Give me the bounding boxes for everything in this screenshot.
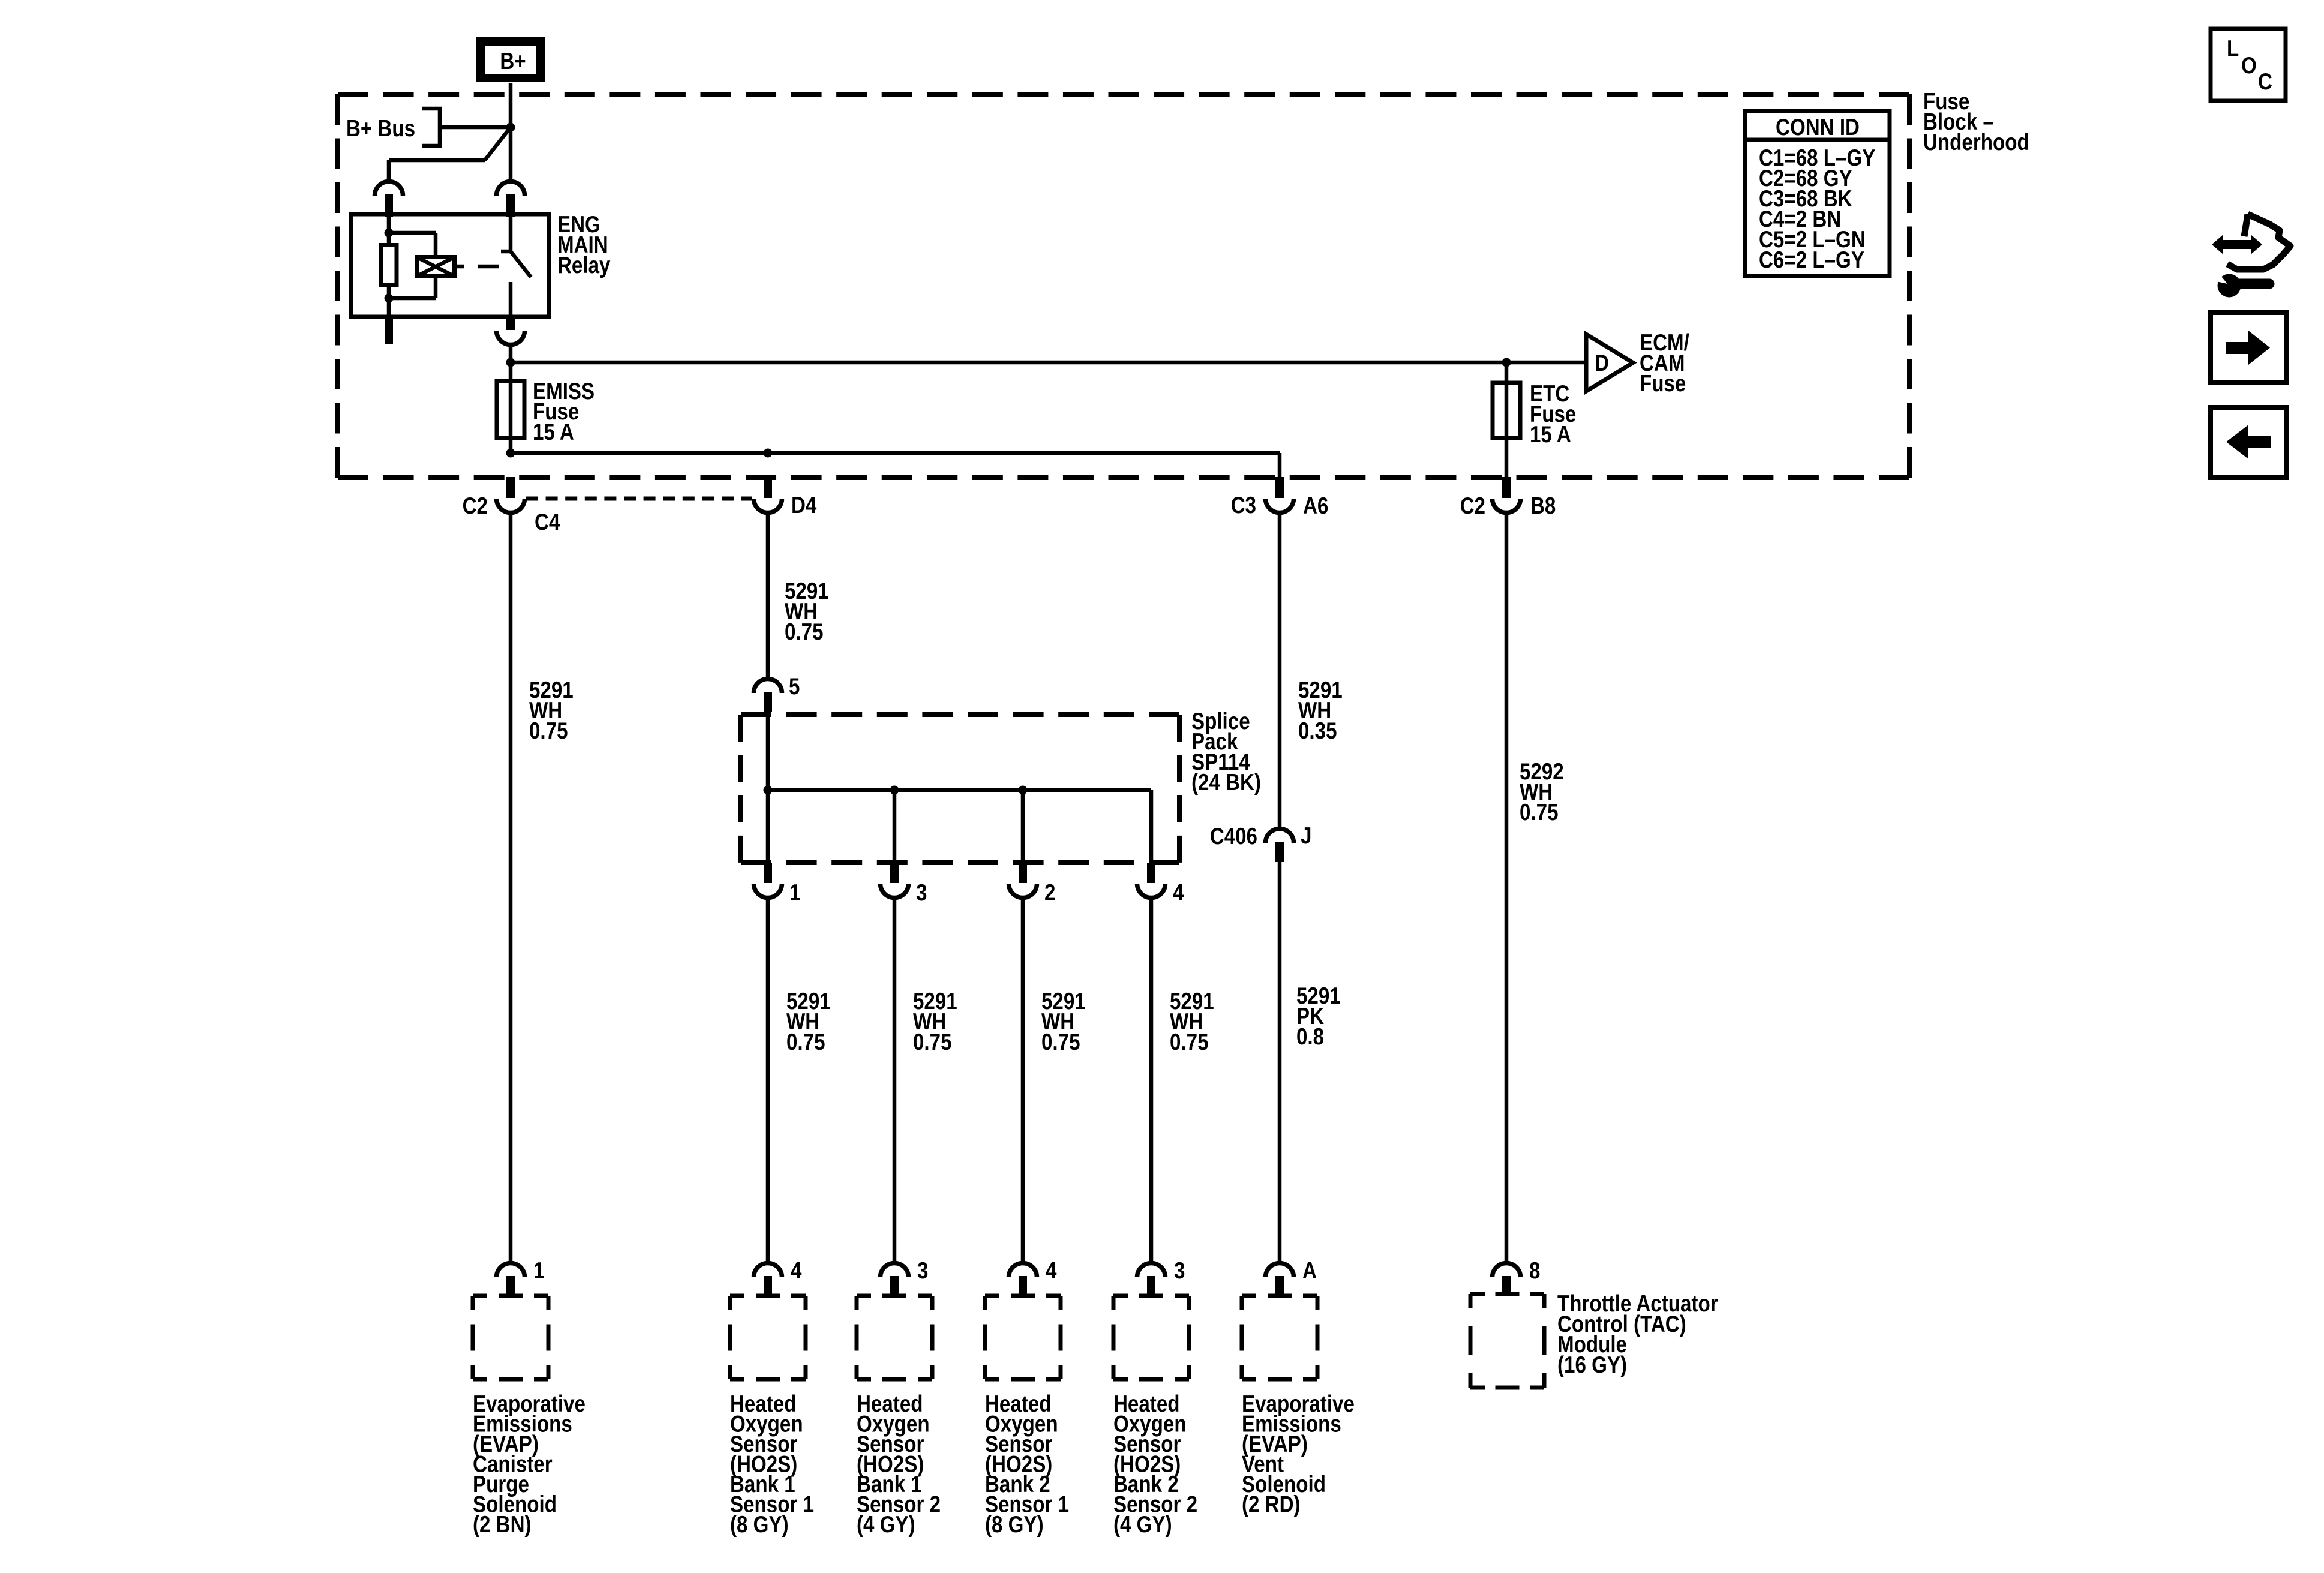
label pin 3 xyxy=(1174,1257,1185,1283)
device box HO2S bank2 sensor1 xyxy=(985,1296,1061,1379)
relay switch lower contact xyxy=(509,282,513,317)
connector C2/C4 (EMISS out) xyxy=(497,477,525,513)
label pin 4 xyxy=(791,1257,801,1283)
connector splice pin 1 xyxy=(754,863,782,898)
connector C406 pin J xyxy=(1266,829,1294,863)
wire 5291 PK to vent solenoid xyxy=(1278,862,1282,1263)
label A6 xyxy=(1303,492,1328,518)
wire 5291 WH to splice xyxy=(766,512,770,679)
fuse EMISS 15A xyxy=(497,381,524,438)
relay ENG MAIN box xyxy=(351,214,549,317)
connector device pin A at x2133 xyxy=(1266,1263,1294,1296)
label wire 5291 WH 0.75 xyxy=(1041,987,1086,1055)
svg-text:D: D xyxy=(1595,349,1609,376)
label HO2S bank1 sensor2 xyxy=(857,1390,941,1537)
label C406 xyxy=(1210,822,1257,849)
svg-text:3: 3 xyxy=(917,1257,928,1283)
splice pack SP114 dashed box xyxy=(741,715,1179,863)
connector D4 (HO2S feed out) xyxy=(754,477,782,513)
wire splice drop 1 xyxy=(766,790,770,863)
label Fuse Block - Underhood xyxy=(1923,88,2029,155)
connector splice pin 2 xyxy=(1009,863,1037,898)
svg-text:C406: C406 xyxy=(1210,822,1257,849)
LOC reference box xyxy=(2211,29,2286,101)
fuse ETC 15A xyxy=(1493,383,1520,438)
wire diagonal from B+ junction xyxy=(485,127,511,160)
label pin 2 xyxy=(1044,879,1055,905)
svg-text:C4: C4 xyxy=(535,508,560,535)
wire B+ junction down to relay switch pin xyxy=(509,127,513,182)
wire 5291 WH from splice pin 3 xyxy=(893,897,897,1263)
svg-text:5: 5 xyxy=(789,673,800,699)
svg-text:8: 8 xyxy=(1529,1257,1540,1283)
connector relay switch pin (top right) xyxy=(497,182,525,218)
svg-text:2: 2 xyxy=(1044,879,1055,905)
wire 5291 WH from splice pin 2 xyxy=(1021,897,1025,1263)
label HO2S bank1 sensor1 xyxy=(730,1390,814,1537)
label ECM/CAM Fuse xyxy=(1640,329,1689,396)
device box HO2S bank2 sensor2 xyxy=(1113,1296,1189,1379)
svg-text:A: A xyxy=(1302,1257,1317,1283)
device box TAC module xyxy=(1470,1294,1544,1388)
label wire 5291 WH 0.75 xyxy=(1170,987,1214,1055)
wire coil top lead xyxy=(389,233,436,255)
wire B+ to junction xyxy=(509,83,513,127)
label Throttle Actuator Control (TAC) Module (16 GY) xyxy=(1557,1290,1718,1377)
wire splice drop 2 xyxy=(1021,790,1025,863)
wire 5292 WH to TAC module xyxy=(1505,512,1509,1263)
relay switch contact xyxy=(501,214,511,251)
connector 5 splice pack xyxy=(754,679,782,712)
node B+ junction xyxy=(506,123,515,132)
svg-text:4: 4 xyxy=(1046,1257,1056,1283)
label wire 5291 PK 0.8 xyxy=(1296,982,1341,1049)
svg-text:3: 3 xyxy=(916,879,927,905)
relay coil output pin stub xyxy=(385,317,393,344)
svg-text:C3: C3 xyxy=(1231,491,1256,518)
svg-text:J: J xyxy=(1301,822,1311,848)
label wire 5291 WH 0.75 xyxy=(913,987,957,1055)
label pin 4 xyxy=(1173,879,1184,905)
ECM/CAM fuse arrow D xyxy=(1586,334,1633,391)
connector device pin 4 at x1280 xyxy=(754,1263,782,1296)
wire elbow down to A6 xyxy=(1278,453,1282,478)
icon arrow left box xyxy=(2211,407,2286,478)
label HO2S bank2 sensor2 xyxy=(1113,1390,1197,1537)
svg-text:CONN ID: CONN ID xyxy=(1776,113,1860,140)
svg-text:A6: A6 xyxy=(1303,492,1328,518)
label pin 3 xyxy=(916,879,927,905)
wire through ETC fuse xyxy=(1505,362,1509,478)
wire 5291 WH from splice pin 4 xyxy=(1149,897,1154,1263)
relay switch blade xyxy=(511,251,531,277)
node D4 branch junction xyxy=(764,449,773,458)
wire horizontal to relay coil side xyxy=(389,158,485,163)
label wire 5291 WH 0.75 (splice feed) xyxy=(785,577,829,644)
svg-text:C: C xyxy=(2258,68,2272,94)
wire splice feed inside xyxy=(766,711,770,790)
label HO2S bank2 sensor1 xyxy=(985,1390,1069,1537)
label pin J xyxy=(1301,822,1311,848)
svg-text:C2: C2 xyxy=(1460,492,1485,518)
B+ battery feed box xyxy=(481,41,541,78)
svg-text:ECM/CAMFuse: ECM/CAMFuse xyxy=(1640,329,1689,396)
connector face C4 dashed line xyxy=(526,497,752,501)
connector C3/A6 (vent feed out) xyxy=(1266,477,1294,513)
wire 5291 WH from splice pin 1 xyxy=(766,897,770,1263)
label EVAP vent solenoid xyxy=(1242,1390,1355,1517)
wire down to relay pin xyxy=(387,160,391,182)
connector splice pin 3 xyxy=(881,863,909,898)
svg-text:D4: D4 xyxy=(791,491,816,518)
icon vehicle with wrench xyxy=(2211,214,2290,298)
label wire 5292 WH 0.75 xyxy=(1520,758,1564,825)
node splice junction 1 xyxy=(764,786,773,795)
label pin A xyxy=(1302,1257,1317,1283)
svg-text:B+: B+ xyxy=(500,47,526,74)
svg-text:1: 1 xyxy=(533,1257,544,1283)
device box EVAP vent solenoid xyxy=(1242,1296,1317,1379)
wire splice drop 3 xyxy=(893,790,897,863)
node relay output junction xyxy=(506,358,515,367)
node coil top junction xyxy=(385,229,394,238)
resistor relay suppression xyxy=(381,245,397,285)
wire bus below EMISS fuse xyxy=(511,451,1280,455)
node splice junction 3 xyxy=(1019,786,1028,795)
label pin 1 xyxy=(789,879,800,905)
node coil bottom junction xyxy=(385,294,394,303)
label Splice Pack SP114 (24 BK) xyxy=(1191,707,1261,795)
label C2 (ETC) xyxy=(1460,492,1485,518)
CONN ID rows xyxy=(1759,144,1875,272)
svg-text:C2: C2 xyxy=(463,492,488,518)
connector device pin 3 at x1491 xyxy=(881,1263,909,1296)
label wire 5291 WH 0.75 (purge) xyxy=(529,676,574,743)
wire 5291 WH to EVAP purge xyxy=(509,512,513,1263)
connector relay coil pin (top left) xyxy=(375,182,403,218)
label EVAP canister purge solenoid xyxy=(473,1390,585,1537)
svg-text:1: 1 xyxy=(789,879,800,905)
svg-text:3: 3 xyxy=(1174,1257,1185,1283)
label C3 xyxy=(1231,491,1256,518)
wire through EMISS fuse xyxy=(509,362,513,453)
svg-text:B8: B8 xyxy=(1530,492,1556,518)
node splice junction 2 xyxy=(890,786,899,795)
label EMISS Fuse 15 A xyxy=(533,377,594,445)
svg-text:ETCFuse15 A: ETCFuse15 A xyxy=(1530,380,1576,447)
device box EVAP canister purge solenoid xyxy=(473,1296,548,1379)
connector device pin 4 at x1705 xyxy=(1009,1263,1037,1296)
label C2 xyxy=(463,492,488,518)
label pin 4 xyxy=(1046,1257,1056,1283)
icon arrow right box xyxy=(2211,313,2286,383)
connector relay switch output xyxy=(497,317,525,362)
label wire 5291 WH 0.35 xyxy=(1298,676,1343,743)
relay linkage xyxy=(457,265,499,269)
label pin 3 xyxy=(917,1257,928,1283)
svg-text:4: 4 xyxy=(1173,879,1184,905)
connector device pin 8 at x2511 xyxy=(1493,1263,1521,1296)
node below EMISS fuse xyxy=(506,449,515,458)
label wire 5291 WH 0.75 xyxy=(786,987,831,1055)
label ETC Fuse 15 A xyxy=(1530,380,1576,447)
connector device pin 1 at x851 xyxy=(497,1263,525,1296)
label pin 5 xyxy=(789,673,800,699)
B+ Bus bracket xyxy=(422,109,511,146)
label pin 8 xyxy=(1529,1257,1540,1283)
label pin 1 xyxy=(533,1257,544,1283)
node ETC branch junction xyxy=(1502,358,1511,367)
wire splice drop 4 xyxy=(1149,790,1154,863)
wire 5291 WH to C406 xyxy=(1278,512,1282,829)
label C4 xyxy=(535,508,560,535)
svg-text:4: 4 xyxy=(791,1257,801,1283)
label D4 xyxy=(791,491,816,518)
relay coil symbol xyxy=(417,257,455,277)
svg-text:O: O xyxy=(2241,52,2257,78)
device box HO2S bank1 sensor2 xyxy=(857,1296,932,1379)
wire coil-side inside relay xyxy=(387,214,391,243)
wire splice bus xyxy=(768,788,1151,792)
svg-text:B+ Bus: B+ Bus xyxy=(346,115,415,141)
label B+ Bus xyxy=(346,115,415,141)
connector C2/B8 (ETC out) xyxy=(1493,477,1521,513)
connector splice pin 4 xyxy=(1137,863,1166,898)
fuse block underhood dashed enclosure xyxy=(338,94,1909,478)
svg-text:L: L xyxy=(2227,35,2239,61)
connector device pin 3 at x1919 xyxy=(1137,1263,1166,1296)
label CONN ID xyxy=(1776,113,1860,140)
wire below resistor xyxy=(387,287,391,317)
label ENG MAIN Relay xyxy=(557,211,610,278)
label B8 xyxy=(1530,492,1556,518)
device box HO2S bank1 sensor1 xyxy=(730,1296,806,1379)
CONN ID table xyxy=(1745,111,1890,276)
wire coil bottom lead xyxy=(389,278,436,298)
wire bus to ECM/CAM fuse xyxy=(511,361,1586,365)
